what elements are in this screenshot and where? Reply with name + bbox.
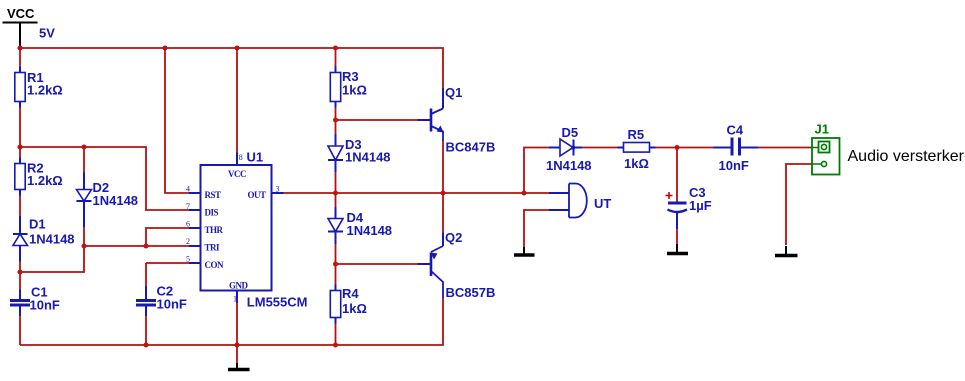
resistor R4 [330, 285, 367, 324]
diode D5 [546, 125, 592, 173]
wire D3 bottom to OUT row [335, 172, 337, 193]
wire D4 top lead [335, 193, 337, 207]
diode D2 [77, 173, 139, 228]
svg-text:DIS: DIS [205, 208, 219, 218]
pin 8 stub [236, 153, 238, 166]
junction node B [18, 270, 23, 275]
pin 7 stub DIS [189, 209, 201, 211]
svg-text:5: 5 [186, 255, 190, 264]
wire C1 top lead [19, 272, 21, 290]
ground (center, under U1) [228, 363, 250, 370]
resistor R3 [330, 67, 367, 108]
diode D4 [328, 207, 392, 244]
buzzer UT [549, 184, 611, 218]
junction node R5/C3/C4 [675, 145, 680, 150]
svg-text:1kΩ: 1kΩ [342, 83, 367, 98]
svg-text:BC847B: BC847B [446, 140, 496, 155]
wire C1 bottom lead [19, 316, 21, 345]
wire TRI row [84, 245, 189, 247]
wire UT bottom pin to ground [524, 210, 549, 247]
ground (under UT) [514, 247, 535, 255]
svg-text:Audio versterker: Audio versterker [848, 148, 965, 165]
junction node at VCC/R1 [18, 46, 23, 51]
svg-text:C4: C4 [727, 123, 744, 138]
wire U1 pin1 to rail [236, 303, 238, 345]
junction node rail/RST [163, 46, 168, 51]
junction node A left [18, 145, 23, 150]
wire R4 top lead [335, 264, 337, 285]
pin 2 stub TRI [189, 245, 201, 247]
svg-text:7: 7 [186, 202, 190, 211]
svg-text:U1: U1 [247, 150, 264, 165]
transistor Q1 BC847B [418, 85, 496, 155]
wire R2 leads [19, 147, 21, 216]
wire R3 bottom lead [335, 108, 337, 121]
junction node rail/R4 [333, 343, 338, 348]
capacitor C3 polarized [666, 185, 712, 229]
wire D5 to R5 [582, 147, 618, 149]
svg-text:1N4148: 1N4148 [546, 158, 592, 173]
wire bottom ground rail [20, 298, 443, 345]
wire Q1 emitter to OUT row [442, 141, 444, 193]
pin 6 stub THR [189, 227, 201, 229]
wire D3 top lead [335, 120, 337, 134]
wire node B to D2 bottom [20, 246, 84, 272]
svg-text:1.2kΩ: 1.2kΩ [27, 173, 63, 188]
svg-text:5V: 5V [39, 26, 55, 41]
wire D1 bottom to node B [19, 262, 21, 273]
svg-text:GND: GND [229, 281, 249, 291]
pin 5 stub CON [189, 262, 201, 264]
junction node rail/R3 [333, 46, 338, 51]
junction node rail/GND pin [235, 343, 240, 348]
svg-text:J1: J1 [815, 122, 829, 137]
junction node D4/R4/Q2 base [333, 262, 338, 267]
svg-text:10nF: 10nF [157, 297, 187, 312]
svg-text:D5: D5 [562, 125, 579, 140]
wire output node up to D5 [524, 148, 549, 194]
svg-text:4: 4 [186, 185, 190, 194]
svg-text:THR: THR [205, 225, 224, 235]
svg-text:1N4148: 1N4148 [347, 223, 393, 238]
capacitor C4 [714, 123, 759, 174]
junction node TRI/D2 [82, 244, 87, 249]
resistor R2 [15, 158, 63, 196]
resistor R5 [618, 127, 656, 171]
svg-text:10nF: 10nF [30, 298, 60, 313]
svg-text:OUT: OUT [248, 190, 267, 200]
svg-text:TRI: TRI [205, 243, 221, 253]
pin 1 stub [236, 291, 238, 304]
svg-text:VCC: VCC [7, 6, 35, 21]
transistor Q2 BC857B [418, 230, 496, 300]
wire R4 bottom lead [335, 324, 337, 346]
wire C4 to J1 pin1 [758, 147, 812, 149]
ground (under C3) [667, 244, 688, 254]
svg-text:2: 2 [186, 237, 190, 246]
svg-text:Q1: Q1 [445, 85, 462, 100]
svg-text:1N4148: 1N4148 [93, 193, 139, 208]
wire CON row [146, 262, 189, 264]
diode D1 [13, 216, 75, 262]
svg-text:R5: R5 [628, 127, 645, 142]
wire THR to TRI [146, 228, 189, 246]
power symbol VCC [3, 23, 38, 49]
svg-text:6: 6 [186, 220, 190, 229]
wire C3 bottom lead [676, 229, 678, 244]
D5 apex junction mark [571, 146, 575, 150]
svg-text:R4: R4 [342, 286, 359, 301]
svg-text:1µF: 1µF [689, 198, 712, 213]
svg-text:1kΩ: 1kΩ [624, 156, 649, 171]
junction node A / D2 [82, 145, 87, 150]
capacitor C1 [10, 285, 60, 317]
junction node rail/C2 [144, 343, 149, 348]
wire Q2 base [336, 263, 418, 265]
svg-text:1kΩ: 1kΩ [342, 301, 367, 316]
wire OUT row [284, 192, 550, 194]
svg-text:RST: RST [205, 190, 222, 200]
pin 4 stub RST [189, 192, 201, 194]
junction node R3/D3/base [333, 118, 338, 123]
wire VCC top rail [20, 48, 443, 88]
resistor R1 [15, 67, 63, 108]
svg-text:UT: UT [594, 196, 611, 211]
svg-text:1N4148: 1N4148 [29, 232, 75, 247]
junction node TRI/THR [144, 244, 149, 249]
wire C3 top lead [676, 148, 678, 202]
wire R1 top lead [19, 48, 21, 67]
junction node rail/pin8 [235, 46, 240, 51]
svg-text:1N4148: 1N4148 [345, 150, 391, 165]
wire ground stub center [236, 345, 238, 363]
junction node OUT/D3/D4 [333, 191, 338, 196]
wire CON to C2 top [145, 263, 147, 286]
junction node OUT/Q1/Q2 [441, 191, 446, 196]
svg-text:LM555CM: LM555CM [247, 295, 308, 310]
wire U1 pin8 to rail [236, 48, 238, 153]
wire D2 bottom lead [83, 227, 85, 246]
svg-text:1.2kΩ: 1.2kΩ [27, 83, 63, 98]
connector J1 [812, 122, 840, 175]
svg-text:D1: D1 [29, 217, 46, 232]
ground (under J1) [775, 246, 798, 256]
svg-text:3: 3 [276, 185, 280, 194]
diode D3 [328, 134, 391, 172]
wire R5 to C3 node [656, 147, 714, 149]
wire D2 top lead [83, 147, 85, 173]
op-amp U1 LM555CM body [186, 150, 307, 310]
wire RST to rail [165, 48, 189, 193]
capacitor C2 [136, 284, 187, 317]
svg-text:8: 8 [239, 153, 243, 162]
wire R3 top lead [335, 48, 337, 67]
junction node OUT/D5/UT [522, 191, 527, 196]
wire Q2 emitter to OUT row [442, 193, 444, 233]
pin 3 stub OUT [272, 192, 284, 194]
wire D4 bottom to Q2 base row [335, 244, 337, 264]
svg-text:VCC: VCC [228, 169, 246, 179]
svg-text:Q2: Q2 [445, 230, 462, 245]
svg-text:BC857B: BC857B [446, 285, 496, 300]
wire Q1 base [336, 119, 418, 121]
wire node A horizontal (R1/R2 junction to DIS) [20, 147, 189, 210]
wire C2 bottom lead [145, 316, 147, 345]
svg-text:CON: CON [205, 260, 225, 270]
wire R1 bottom to node A [19, 108, 21, 148]
svg-text:1: 1 [233, 295, 237, 304]
svg-text:10nF: 10nF [719, 158, 749, 173]
wire J1 pin2 to ground [786, 164, 812, 245]
